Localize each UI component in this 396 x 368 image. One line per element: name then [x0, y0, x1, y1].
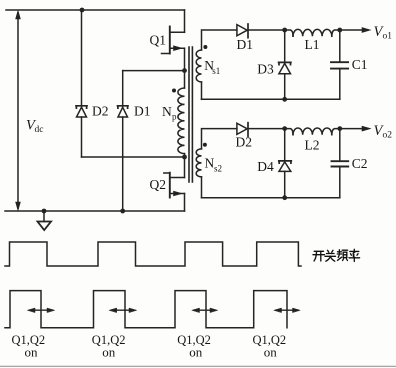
svg-text:D3: D3	[257, 62, 274, 77]
wire output1 bottom rail	[202, 98, 340, 100]
node output2 L2/C2	[337, 126, 342, 131]
Vdc arrow down	[16, 202, 21, 211]
label kaiguan pinlv (switching frequency) drawn strokes	[313, 249, 360, 261]
wire output2 bottom rail	[202, 197, 340, 199]
wire D2 to primary bottom	[82, 156, 185, 158]
node rail2 D4 junction	[282, 195, 287, 200]
transformer core	[188, 47, 190, 182]
svg-text:D2: D2	[236, 135, 253, 150]
svg-text:D1: D1	[134, 104, 151, 119]
svg-text:on: on	[264, 345, 278, 360]
svg-text:N: N	[205, 156, 215, 171]
transistor Q2	[184, 157, 186, 178]
diode D1 (clamp)	[122, 71, 124, 106]
wire top-rail drop to Q1 drain	[184, 10, 186, 32]
svg-text:o2: o2	[383, 131, 393, 141]
node primary bottom / Q2 drain	[182, 155, 187, 160]
svg-text:Q2: Q2	[150, 177, 167, 192]
capacitor C2	[339, 129, 341, 162]
svg-text:o1: o1	[383, 32, 393, 42]
node output1 D1/L1/D3	[282, 28, 287, 33]
diode D3 (freewheel)	[284, 30, 286, 62]
svg-text:C2: C2	[352, 156, 368, 171]
svg-text:L1: L1	[305, 37, 320, 52]
transformer secondary Ns2	[202, 129, 237, 149]
svg-text:D4: D4	[257, 159, 274, 174]
wire Vo1 output arrow	[340, 29, 363, 31]
wire D1 top to Q1 source node	[123, 70, 185, 72]
node Q1 source / primary top	[182, 68, 187, 73]
transformer secondary Ns1	[202, 30, 237, 50]
scan artifact line	[0, 365, 396, 367]
svg-text:on: on	[25, 345, 39, 360]
Vdc arrow up	[16, 11, 21, 20]
diode D1 (output 1)	[237, 25, 247, 36]
svg-text:C1: C1	[352, 57, 368, 72]
node bottom rail D1 junction	[120, 209, 125, 214]
node output1 L1/C1	[337, 28, 342, 33]
svg-text:on: on	[102, 345, 116, 360]
pulse width arrow 3	[192, 308, 218, 312]
diode D2 (output 2)	[237, 123, 247, 134]
svg-text:D2: D2	[92, 104, 109, 119]
node top rail D2 junction	[80, 8, 85, 13]
waveform Q1Q2 gate drive	[5, 291, 287, 328]
Ns2 polarity dot	[203, 143, 207, 147]
svg-text:s1: s1	[212, 66, 220, 76]
waveform switching clock	[5, 242, 301, 266]
pulse width arrow 1	[28, 308, 55, 312]
svg-text:on: on	[189, 345, 203, 360]
svg-text:N: N	[162, 104, 172, 119]
ground	[43, 211, 45, 222]
svg-text:dc: dc	[35, 125, 44, 135]
diode D4 (freewheel)	[284, 129, 286, 161]
node bottom-rail ground junction	[42, 209, 47, 214]
Ns1 polarity dot	[203, 45, 207, 49]
diode D2 (clamp)	[81, 10, 83, 106]
Vdc source line	[17, 13, 19, 208]
svg-text:L2: L2	[305, 137, 320, 152]
svg-text:D1: D1	[237, 37, 254, 52]
inductor L2	[285, 129, 293, 135]
wire top rail	[6, 9, 185, 11]
svg-text:s2: s2	[214, 164, 222, 174]
transformer primary Np	[184, 71, 186, 88]
svg-text:Q1: Q1	[150, 32, 167, 47]
node rail1 D3 junction	[282, 97, 287, 102]
inductor L1	[285, 30, 293, 36]
wire Vo2 output arrow	[340, 128, 363, 130]
pulse width arrow 2	[109, 308, 136, 312]
pulse width arrow 4	[274, 308, 300, 312]
capacitor C1	[339, 30, 341, 62]
node output2 D2/L2/D4	[282, 126, 287, 131]
svg-text:p: p	[172, 111, 177, 121]
primary polarity dot	[172, 89, 176, 93]
transistor Q1	[169, 27, 171, 54]
wire bottom rail	[5, 210, 185, 212]
